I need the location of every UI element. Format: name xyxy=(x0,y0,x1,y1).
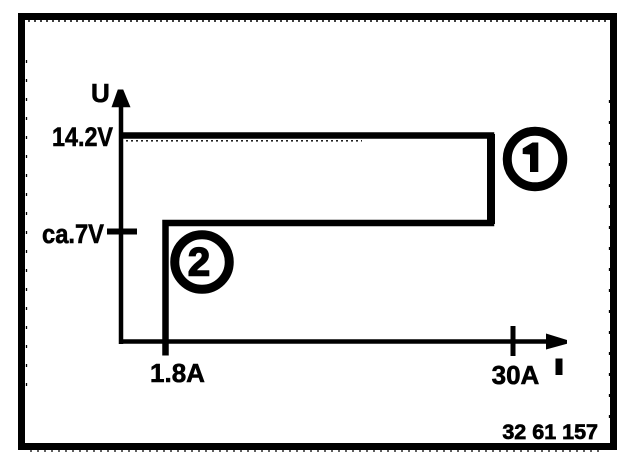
svg-text:30A: 30A xyxy=(492,360,540,390)
ca.7V tick xyxy=(107,229,137,235)
scan noise: dotted trail under bottom border xyxy=(30,450,600,452)
scan noise: dotted trail under top border xyxy=(28,20,608,22)
U axis arrowhead xyxy=(112,90,131,108)
characteristic curve xyxy=(119,136,491,356)
svg-text:14.2V: 14.2V xyxy=(52,122,113,152)
wire: right vertical thickening (scan bleed) xyxy=(487,134,495,224)
svg-text:32 61 157: 32 61 157 xyxy=(502,420,598,444)
30A tick xyxy=(511,326,516,356)
svg-text:ca.7V: ca.7V xyxy=(42,219,104,249)
I axis (horizontal) xyxy=(119,339,548,344)
callout circle 2 xyxy=(175,235,230,290)
callout circle 1 xyxy=(507,131,563,187)
U axis (vertical) xyxy=(119,100,124,344)
svg-text:U: U xyxy=(91,78,110,108)
I axis arrowhead xyxy=(546,334,567,350)
scan noise: nubs inside right border xyxy=(609,100,611,420)
label I xyxy=(556,359,563,376)
svg-text:2: 2 xyxy=(188,241,210,285)
svg-text:1.8A: 1.8A xyxy=(150,358,205,388)
scan noise: dotted trail under 14.2V line xyxy=(126,140,362,142)
scan noise: nubs inside left border xyxy=(26,60,28,390)
